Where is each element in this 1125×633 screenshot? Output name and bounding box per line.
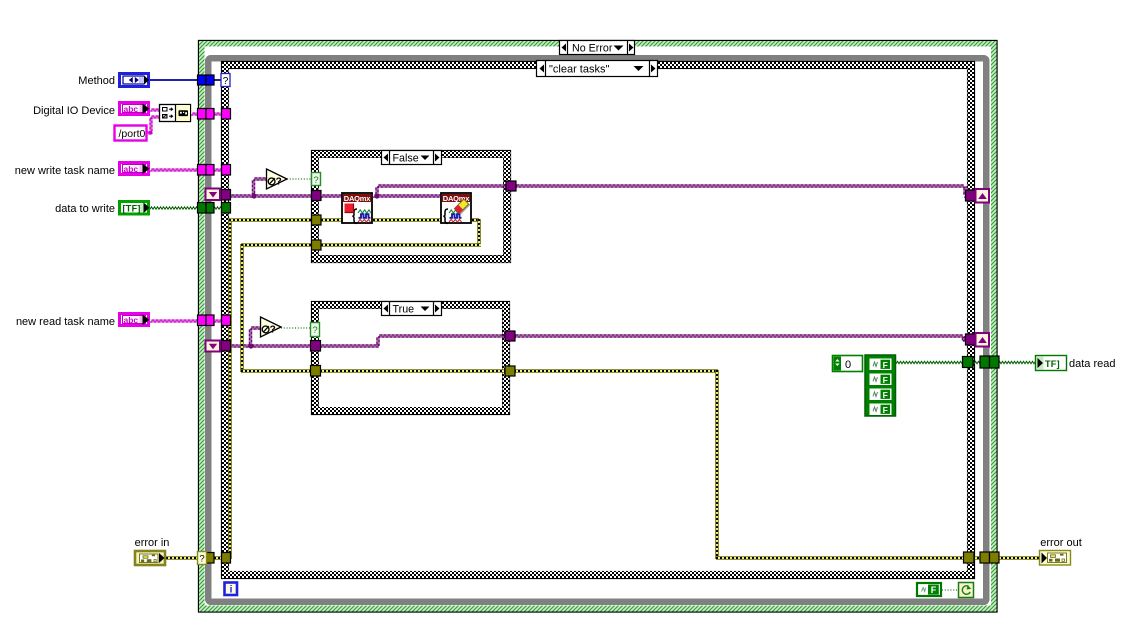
- tunnels on False case: write task in: [312, 191, 322, 201]
- tunnels on False case: error return: [312, 240, 322, 250]
- svg-text:new write task name: new write task name: [15, 165, 115, 177]
- wire: error return to left, down to True case row: [241, 243, 313, 247]
- case structure "True": [312, 302, 510, 415]
- svg-text:F: F: [931, 585, 937, 595]
- tunnel: write task into case (purple): [221, 190, 231, 201]
- case selector terminal ? (False case): [312, 173, 321, 186]
- svg-text:Digital IO Device: Digital IO Device: [33, 105, 115, 117]
- svg-text:abc: abc: [124, 164, 139, 174]
- tunnels on False case: write task out (right): [506, 181, 516, 191]
- case structure "No Error" (error case, green hatched border): [199, 41, 998, 613]
- tunnel: error in through case border: [222, 553, 231, 564]
- wire: /port0 to concatenate: [145, 132, 152, 134]
- svg-text:[TF]: [TF]: [123, 204, 141, 214]
- tunnel: write task name through case border: [222, 165, 231, 176]
- wire: error from True case to right: [514, 369, 718, 373]
- tunnel: read task name through outer borders: [198, 315, 207, 326]
- svg-text:?: ?: [199, 554, 204, 565]
- tunnel: device string through case border: [222, 109, 231, 120]
- svg-text:abc: abc: [124, 104, 139, 114]
- svg-text:/port0: /port0: [119, 128, 146, 140]
- selector label "False": [382, 151, 442, 165]
- constant: /port0 (string): [115, 126, 147, 141]
- selector label "No Error": [560, 41, 635, 55]
- constant: boolean array (data read default): [833, 355, 896, 416]
- svg-text:i: i: [230, 585, 233, 596]
- svg-text:DAQmx: DAQmx: [344, 194, 372, 203]
- svg-text:?: ?: [223, 76, 229, 87]
- tunnels on False case: error in: [312, 215, 322, 225]
- control terminal: error in (cluster): [135, 551, 165, 565]
- wire: error to False case: [229, 218, 313, 222]
- tunnel: error in through loop border: [206, 553, 215, 564]
- Not-a-Refnum node (read): [261, 317, 282, 337]
- case selector terminal ? (True case): [311, 323, 320, 337]
- svg-text:F: F: [883, 360, 888, 370]
- wire: loop condition constant dotted: [942, 589, 959, 591]
- DAQmx Clear Task U2: [441, 193, 471, 223]
- wire: error out of Clear Task, U-turn: [472, 218, 479, 222]
- tunnels on True case: read task out: [505, 331, 515, 341]
- indicator terminal: error out (cluster): [1040, 551, 1071, 566]
- svg-text:F: F: [883, 375, 888, 385]
- wire: read task from left shift register: [230, 345, 312, 347]
- wire: read task to right shift register: [514, 335, 964, 337]
- wire: error between DAQmx icons: [373, 218, 441, 222]
- tunnel: read task name through case border: [222, 315, 231, 326]
- control terminal: Method (enum): [120, 74, 150, 87]
- tunnel: error out through outer borders: [980, 552, 990, 563]
- junction dots on task wires: [251, 193, 256, 198]
- svg-text:F: F: [883, 390, 888, 400]
- Not-a-Refnum node (write): [267, 169, 288, 189]
- control terminal: new read task name (string): [120, 314, 150, 326]
- control terminal: data to write (boolean array): [120, 202, 150, 215]
- wire: error in to case: [166, 556, 231, 560]
- wire: concatenated device string into case: [191, 113, 224, 115]
- svg-text:abc: abc: [124, 315, 139, 325]
- tunnels on True case: read task in: [311, 341, 321, 352]
- svg-text:?: ?: [313, 175, 318, 186]
- tunnel: read task out through case border (right): [966, 334, 976, 345]
- tunnel: error out through case border: [964, 552, 975, 563]
- svg-text:F: F: [883, 405, 888, 415]
- svg-text:error out: error out: [1040, 537, 1082, 549]
- control terminal: Digital IO Device (string): [120, 103, 150, 115]
- tunnel: data read through case border: [963, 357, 974, 368]
- case selector terminal ? (No Error case): [198, 552, 207, 565]
- svg-text:data to write: data to write: [55, 203, 115, 215]
- tunnels on True case: error out: [505, 366, 515, 376]
- iteration terminal i: [225, 583, 238, 596]
- svg-text:"clear tasks": "clear tasks": [549, 64, 609, 76]
- tunnels on True case: error in: [311, 366, 321, 377]
- wire: data to write boolean array: [150, 207, 230, 209]
- wire: branch up to Not-a-Refnum (read): [249, 328, 251, 347]
- wire: branch to right tunnel (write): [376, 186, 378, 196]
- wire: boolean selector (write) dotted: [287, 178, 312, 180]
- DAQmx Stop Task U1: [342, 193, 372, 223]
- selector label "True": [382, 302, 442, 316]
- svg-text:False: False: [393, 153, 419, 165]
- Concatenate Strings node: [160, 105, 191, 122]
- wire: error through DAQmx Stop Task: [321, 218, 342, 222]
- shift register left (write task): [206, 189, 221, 201]
- wire: new read task name into case: [150, 320, 230, 322]
- svg-text:error in: error in: [135, 537, 170, 549]
- svg-text:new read task name: new read task name: [16, 316, 115, 328]
- boolean constant TF (False) for loop condition: [917, 583, 941, 596]
- case selector terminal ? (clear tasks, enum): [221, 74, 230, 88]
- wire: write task inside False case: [321, 195, 342, 197]
- tunnel: data to write through outer borders: [198, 203, 207, 214]
- shift register left (read task): [206, 341, 221, 352]
- wire: read task inside True case: [320, 345, 379, 347]
- svg-text:True: True: [393, 304, 415, 316]
- tunnel: write task name through outer borders: [198, 165, 207, 176]
- wire: error bottom run to error out: [716, 556, 965, 560]
- tunnel: read task into case (purple): [221, 341, 231, 352]
- wire: Digital IO Device string to concatenate: [150, 109, 159, 111]
- indicator terminal: data read (boolean array): [1036, 356, 1067, 371]
- svg-text:No Error: No Error: [572, 43, 613, 55]
- svg-text:0: 0: [845, 359, 851, 371]
- wire: write task from left shift register: [230, 195, 313, 197]
- shift register right (read task): [976, 333, 990, 347]
- tunnel: Method (blue) through outer borders: [198, 75, 207, 85]
- selector label "clear tasks": [537, 61, 658, 77]
- wire: Method enum to case selector: [150, 79, 222, 81]
- svg-text:Method: Method: [78, 75, 115, 87]
- wire: boolean selector (read) dotted: [281, 327, 311, 329]
- wire: error rising leg inside case: [228, 219, 232, 559]
- case structure "clear tasks" (checkered border): [222, 62, 975, 579]
- control terminal: new write task name (string): [120, 163, 150, 175]
- svg-text:?: ?: [276, 177, 282, 188]
- loop condition terminal (continue if true): [959, 583, 974, 598]
- shift register right (write task): [976, 189, 990, 203]
- while loop: [208, 58, 986, 602]
- tunnel: data read through outer borders: [980, 356, 990, 368]
- tunnel: data to write through case border: [222, 203, 231, 214]
- wire: new write task name into case: [150, 169, 230, 171]
- tunnel: write task out through case border (right): [966, 190, 976, 201]
- svg-text:?: ?: [270, 325, 276, 336]
- wire: branch up to Not-a-Refnum (write): [252, 179, 254, 197]
- svg-text:TF]: TF]: [1045, 359, 1060, 369]
- wire: write task to right shift register: [515, 185, 965, 187]
- wire: error through True case: [320, 369, 506, 373]
- svg-text:?: ?: [312, 325, 317, 336]
- case structure "False": [312, 151, 511, 263]
- svg-text:data read: data read: [1069, 358, 1115, 370]
- tunnel: device string through outer borders: [198, 109, 207, 120]
- wire: data read boolean array: [896, 361, 1036, 363]
